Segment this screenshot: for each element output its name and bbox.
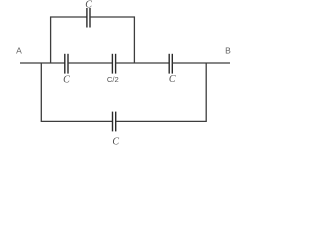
capacitor C1 plates bbox=[65, 54, 68, 74]
svg-text:C: C bbox=[85, 0, 92, 11]
label C of C1 bbox=[63, 75, 70, 86]
label C of C4 bbox=[85, 0, 92, 11]
node B bbox=[225, 45, 231, 55]
svg-text:C: C bbox=[169, 74, 176, 85]
svg-text:C/2: C/2 bbox=[107, 75, 119, 84]
wire bottom branch right run and right riser bbox=[116, 63, 207, 121]
wire main segment C1 to C2 bbox=[68, 62, 112, 64]
svg-text:C: C bbox=[112, 137, 119, 148]
wire main segment C3 to B bbox=[172, 62, 230, 64]
wire main segment A to C1 bbox=[20, 62, 65, 64]
wire top branch left riser and top run to C4 bbox=[51, 17, 87, 63]
capacitor C4 plates (top branch) bbox=[87, 8, 90, 28]
capacitor C2 plates bbox=[112, 54, 115, 74]
wire bottom branch left riser and bottom run to C5 bbox=[41, 63, 112, 121]
label C of C5 bbox=[112, 137, 119, 148]
label C/2 of C2 bbox=[107, 75, 119, 84]
capacitor C3 plates bbox=[169, 54, 172, 74]
wire top branch right run and right riser bbox=[90, 17, 134, 63]
svg-text:A: A bbox=[16, 45, 22, 55]
wire main segment C2 to C3 bbox=[116, 62, 170, 64]
label C of C3 bbox=[169, 74, 176, 85]
capacitor C5 plates (bottom branch) bbox=[113, 112, 116, 132]
svg-text:C: C bbox=[63, 75, 70, 86]
svg-text:B: B bbox=[225, 45, 231, 55]
node A bbox=[16, 45, 22, 55]
